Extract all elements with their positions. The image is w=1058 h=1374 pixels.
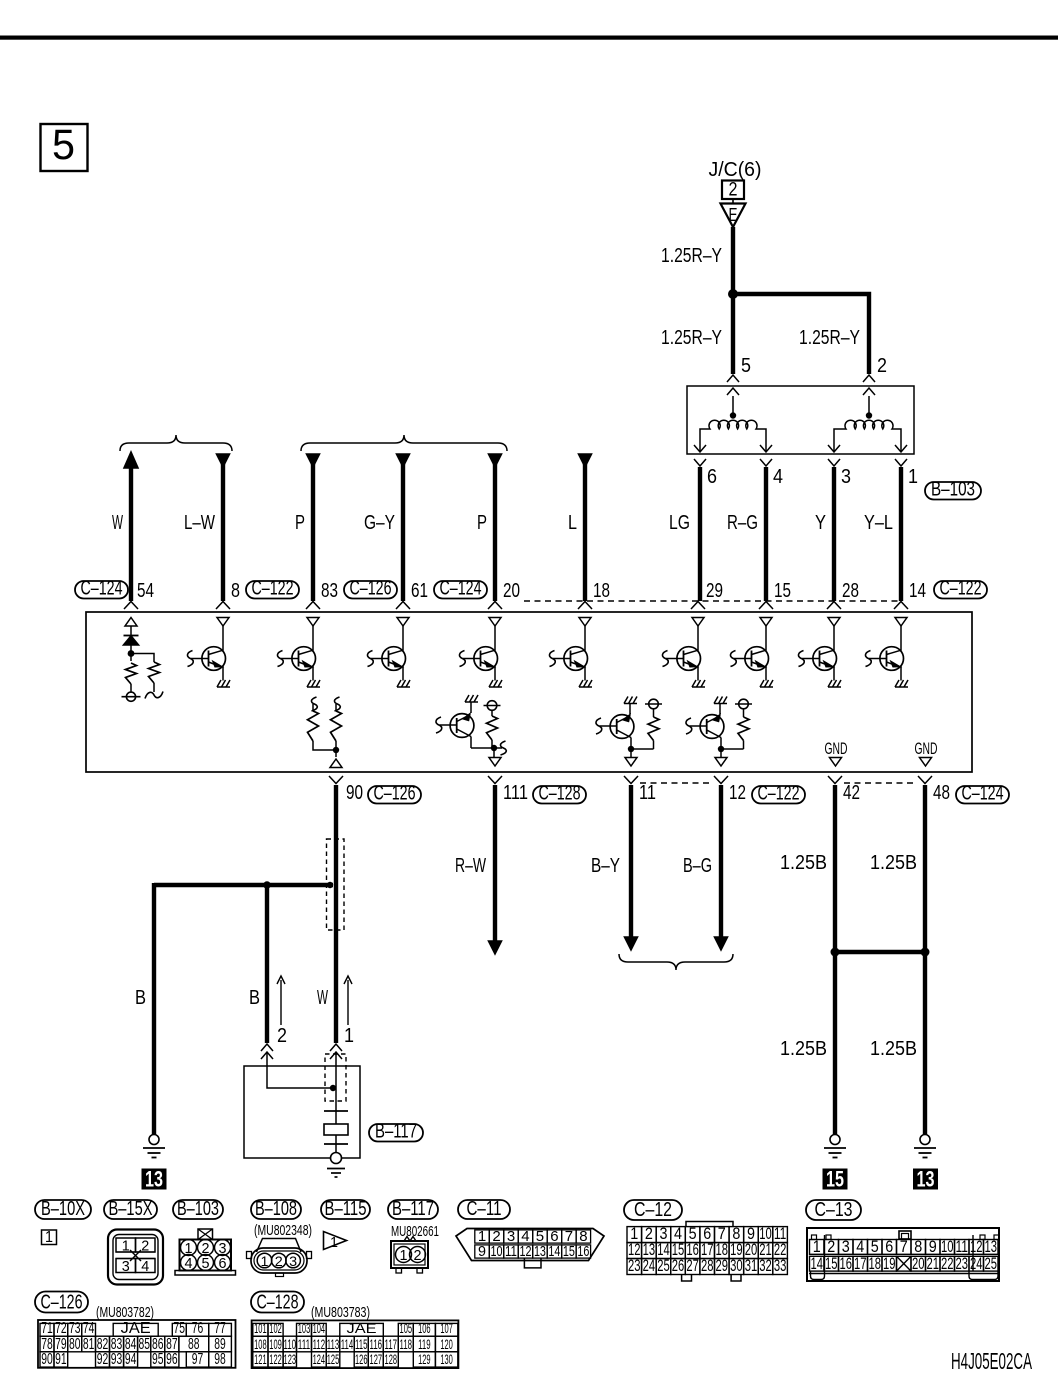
svg-text:7: 7 <box>900 1238 908 1256</box>
svg-text:104: 104 <box>313 1320 326 1336</box>
svg-text:3: 3 <box>842 1238 850 1256</box>
svg-text:JAE: JAE <box>121 1320 151 1337</box>
svg-text:113: 113 <box>327 1336 340 1352</box>
svg-text:C–122: C–122 <box>252 578 294 600</box>
svg-text:E: E <box>729 205 738 225</box>
svg-text:W: W <box>317 986 328 1009</box>
svg-text:1: 1 <box>400 1247 408 1264</box>
svg-text:C–124: C–124 <box>962 783 1004 805</box>
svg-text:14: 14 <box>811 1255 824 1273</box>
svg-text:15: 15 <box>563 1243 575 1260</box>
svg-text:20: 20 <box>503 579 520 602</box>
svg-text:1: 1 <box>330 1234 338 1251</box>
svg-text:124: 124 <box>313 1351 326 1367</box>
svg-text:11: 11 <box>639 781 656 804</box>
svg-text:2: 2 <box>414 1247 422 1264</box>
svg-text:93: 93 <box>111 1351 123 1368</box>
svg-text:129: 129 <box>418 1351 431 1367</box>
svg-text:73: 73 <box>69 1320 81 1337</box>
svg-text:90: 90 <box>41 1351 53 1368</box>
svg-text:1.25R–Y: 1.25R–Y <box>799 326 860 349</box>
svg-text:11: 11 <box>956 1238 969 1256</box>
svg-text:GND: GND <box>825 739 848 758</box>
svg-text:2: 2 <box>827 1238 835 1256</box>
svg-text:6: 6 <box>885 1238 893 1256</box>
svg-text:130: 130 <box>440 1351 453 1367</box>
svg-text:8: 8 <box>914 1238 922 1256</box>
svg-text:28: 28 <box>701 1257 714 1275</box>
svg-text:16: 16 <box>840 1255 853 1273</box>
svg-text:18: 18 <box>593 579 610 602</box>
svg-text:Y–L: Y–L <box>864 511 893 534</box>
svg-text:29: 29 <box>716 1257 729 1275</box>
svg-text:110: 110 <box>284 1336 297 1352</box>
svg-text:C–122: C–122 <box>940 578 982 600</box>
svg-text:Y: Y <box>815 511 826 534</box>
svg-text:L–W: L–W <box>184 511 215 534</box>
svg-text:16: 16 <box>577 1243 589 1260</box>
svg-text:119: 119 <box>418 1336 431 1352</box>
svg-text:24: 24 <box>970 1255 983 1273</box>
svg-text:B: B <box>249 986 260 1009</box>
svg-text:9: 9 <box>478 1243 486 1260</box>
svg-text:B–115: B–115 <box>325 1198 367 1220</box>
svg-text:128: 128 <box>385 1351 398 1367</box>
svg-text:75: 75 <box>174 1320 186 1337</box>
svg-text:H4J05E02CA: H4J05E02CA <box>951 1348 1032 1374</box>
svg-text:G–Y: G–Y <box>364 511 395 534</box>
svg-text:103: 103 <box>298 1320 311 1336</box>
svg-text:1.25B: 1.25B <box>870 851 917 874</box>
svg-text:108: 108 <box>254 1336 267 1352</box>
svg-text:14: 14 <box>909 579 926 602</box>
svg-text:4: 4 <box>773 465 783 488</box>
svg-text:111: 111 <box>298 1336 311 1352</box>
svg-text:MU802661: MU802661 <box>391 1223 439 1240</box>
svg-text:97: 97 <box>192 1351 204 1368</box>
svg-text:15: 15 <box>826 1167 844 1192</box>
svg-text:B–15X: B–15X <box>109 1198 153 1220</box>
svg-text:21: 21 <box>927 1255 940 1273</box>
svg-text:C–126: C–126 <box>41 1291 83 1314</box>
svg-text:B–117: B–117 <box>392 1198 434 1220</box>
svg-text:117: 117 <box>385 1336 398 1352</box>
svg-text:(MU803782): (MU803782) <box>96 1304 154 1321</box>
svg-text:4: 4 <box>856 1238 864 1256</box>
svg-text:120: 120 <box>440 1336 453 1352</box>
svg-text:R–G: R–G <box>727 511 758 534</box>
svg-text:54: 54 <box>137 579 154 602</box>
svg-text:123: 123 <box>284 1351 297 1367</box>
svg-text:24: 24 <box>643 1257 656 1275</box>
svg-text:77: 77 <box>214 1320 226 1337</box>
svg-text:1: 1 <box>122 1238 130 1255</box>
svg-text:127: 127 <box>370 1351 383 1367</box>
svg-text:4: 4 <box>141 1258 149 1275</box>
svg-text:115: 115 <box>355 1336 368 1352</box>
svg-text:17: 17 <box>854 1255 867 1273</box>
svg-text:P: P <box>477 511 487 534</box>
svg-text:15: 15 <box>825 1255 838 1273</box>
svg-text:98: 98 <box>214 1351 226 1368</box>
svg-text:114: 114 <box>341 1336 354 1352</box>
svg-text:9: 9 <box>929 1238 937 1256</box>
svg-text:74: 74 <box>83 1320 95 1337</box>
svg-text:22: 22 <box>941 1255 954 1273</box>
svg-text:5: 5 <box>202 1255 210 1272</box>
svg-text:3: 3 <box>841 465 851 488</box>
svg-text:L: L <box>568 511 577 534</box>
svg-text:1: 1 <box>261 1253 269 1269</box>
svg-text:90: 90 <box>346 781 363 804</box>
svg-text:1: 1 <box>45 1229 53 1246</box>
svg-text:GND: GND <box>915 739 938 758</box>
svg-text:W: W <box>112 511 123 534</box>
svg-text:5: 5 <box>52 121 75 169</box>
svg-text:61: 61 <box>411 579 428 602</box>
svg-text:25: 25 <box>985 1255 998 1273</box>
svg-text:28: 28 <box>842 579 859 602</box>
svg-text:80: 80 <box>69 1336 81 1353</box>
svg-text:13: 13 <box>985 1238 998 1256</box>
svg-text:83: 83 <box>321 579 338 602</box>
svg-text:(MU803783): (MU803783) <box>311 1304 370 1321</box>
svg-text:122: 122 <box>269 1351 282 1367</box>
svg-text:3: 3 <box>122 1258 130 1275</box>
svg-text:C–13: C–13 <box>815 1198 853 1221</box>
svg-text:48: 48 <box>933 781 950 804</box>
svg-text:6: 6 <box>219 1255 227 1272</box>
svg-text:118: 118 <box>400 1336 413 1352</box>
svg-text:C–128: C–128 <box>257 1291 299 1314</box>
svg-text:112: 112 <box>313 1336 326 1352</box>
svg-text:30: 30 <box>730 1257 743 1275</box>
svg-text:3: 3 <box>289 1253 297 1269</box>
svg-text:26: 26 <box>672 1257 685 1275</box>
svg-text:11: 11 <box>505 1243 517 1260</box>
svg-text:B–103: B–103 <box>177 1198 219 1220</box>
svg-text:2: 2 <box>729 180 738 201</box>
svg-text:12: 12 <box>970 1238 983 1256</box>
svg-text:C–122: C–122 <box>758 783 800 805</box>
svg-text:94: 94 <box>125 1351 137 1368</box>
svg-text:105: 105 <box>400 1320 413 1336</box>
svg-text:LG: LG <box>669 511 690 534</box>
svg-text:71: 71 <box>41 1320 53 1337</box>
svg-text:23: 23 <box>628 1257 641 1275</box>
svg-text:C–12: C–12 <box>634 1198 672 1221</box>
svg-text:6: 6 <box>707 465 717 488</box>
svg-text:109: 109 <box>269 1336 282 1352</box>
svg-text:8: 8 <box>231 579 240 602</box>
svg-text:10: 10 <box>491 1243 503 1260</box>
svg-text:116: 116 <box>370 1336 383 1352</box>
svg-text:1: 1 <box>813 1238 821 1256</box>
svg-text:101: 101 <box>254 1320 267 1336</box>
svg-text:C–126: C–126 <box>374 783 416 805</box>
svg-text:85: 85 <box>138 1336 150 1353</box>
svg-text:(MU802348): (MU802348) <box>254 1222 312 1239</box>
svg-text:72: 72 <box>55 1320 67 1337</box>
svg-text:R–W: R–W <box>455 854 486 877</box>
svg-text:P: P <box>295 511 305 534</box>
svg-text:29: 29 <box>706 579 723 602</box>
svg-text:126: 126 <box>355 1351 368 1367</box>
svg-text:91: 91 <box>55 1351 67 1368</box>
svg-text:5: 5 <box>741 354 751 377</box>
svg-text:102: 102 <box>269 1320 282 1336</box>
svg-text:B–117: B–117 <box>375 1121 417 1143</box>
svg-text:111: 111 <box>503 781 528 804</box>
svg-text:76: 76 <box>192 1320 204 1337</box>
svg-text:C–124: C–124 <box>81 578 123 600</box>
svg-text:32: 32 <box>759 1257 772 1275</box>
svg-text:13: 13 <box>534 1243 546 1260</box>
svg-text:B–Y: B–Y <box>591 854 620 877</box>
svg-text:2: 2 <box>277 1024 287 1047</box>
svg-text:C–126: C–126 <box>350 578 392 600</box>
svg-text:JAE: JAE <box>347 1320 377 1336</box>
svg-text:4: 4 <box>185 1255 193 1272</box>
svg-text:1.25B: 1.25B <box>780 1037 827 1060</box>
svg-text:95: 95 <box>152 1351 164 1368</box>
svg-text:B: B <box>135 986 146 1009</box>
svg-text:125: 125 <box>327 1351 340 1367</box>
svg-text:33: 33 <box>774 1257 787 1275</box>
svg-text:5: 5 <box>871 1238 879 1256</box>
svg-text:106: 106 <box>418 1320 431 1336</box>
svg-text:14: 14 <box>548 1243 560 1260</box>
svg-text:1.25R–Y: 1.25R–Y <box>661 244 722 267</box>
svg-text:13: 13 <box>145 1167 163 1192</box>
svg-text:1.25B: 1.25B <box>870 1037 917 1060</box>
svg-text:B–108: B–108 <box>255 1198 297 1220</box>
svg-text:18: 18 <box>869 1255 882 1273</box>
svg-text:121: 121 <box>254 1351 267 1367</box>
svg-text:12: 12 <box>729 781 746 804</box>
svg-text:25: 25 <box>657 1257 670 1275</box>
svg-text:1.25R–Y: 1.25R–Y <box>661 326 722 349</box>
svg-text:27: 27 <box>686 1257 699 1275</box>
svg-text:1: 1 <box>908 465 918 488</box>
svg-text:96: 96 <box>166 1351 178 1368</box>
svg-text:81: 81 <box>83 1336 95 1353</box>
svg-text:13: 13 <box>917 1167 935 1192</box>
svg-text:23: 23 <box>956 1255 969 1273</box>
svg-text:C–124: C–124 <box>440 578 482 600</box>
svg-text:31: 31 <box>745 1257 758 1275</box>
svg-text:2: 2 <box>877 354 887 377</box>
svg-text:B–G: B–G <box>683 854 712 877</box>
svg-text:C–11: C–11 <box>467 1198 502 1220</box>
svg-text:42: 42 <box>843 781 860 804</box>
svg-text:C–128: C–128 <box>539 783 581 805</box>
svg-text:12: 12 <box>519 1243 531 1260</box>
svg-text:19: 19 <box>883 1255 896 1273</box>
svg-text:1: 1 <box>344 1024 354 1047</box>
svg-text:1.25B: 1.25B <box>780 851 827 874</box>
svg-text:15: 15 <box>774 579 791 602</box>
svg-text:107: 107 <box>440 1320 453 1336</box>
svg-text:10: 10 <box>941 1238 954 1256</box>
svg-text:J/C(6): J/C(6) <box>709 158 762 181</box>
svg-text:B–103: B–103 <box>931 479 975 501</box>
svg-text:B–10X: B–10X <box>41 1198 85 1220</box>
svg-text:20: 20 <box>912 1255 925 1273</box>
svg-text:2: 2 <box>141 1238 149 1255</box>
svg-text:2: 2 <box>275 1253 283 1269</box>
svg-text:92: 92 <box>97 1351 109 1368</box>
